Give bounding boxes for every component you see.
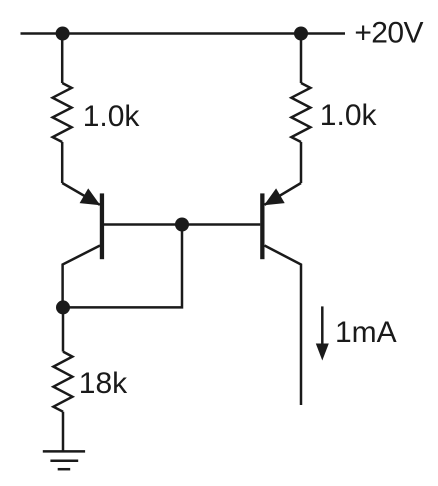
transistor Q2 collector lead	[265, 246, 302, 406]
transistor Q2 emitter lead	[265, 183, 302, 205]
resistor R3 18k	[53, 352, 72, 412]
svg-text:+20V: +20V	[354, 16, 423, 49]
wire R2 to Q2 emitter	[300, 142, 303, 183]
junction node dot above R3	[56, 300, 70, 314]
transistor Q1 collector lead	[63, 246, 100, 308]
wire left branch rail to R1	[61, 34, 64, 84]
wire node to R3	[62, 307, 65, 351]
junction node dot at rail right	[294, 27, 308, 41]
wire base node down	[63, 225, 182, 308]
junction node dot at rail left	[56, 27, 70, 41]
svg-text:1mA: 1mA	[335, 316, 397, 349]
wire R1 to Q1 emitter	[61, 142, 64, 183]
ground symbol	[43, 451, 85, 469]
svg-text:1.0k: 1.0k	[83, 100, 141, 133]
transistor Q1 emitter arrowhead	[80, 188, 101, 205]
resistor R1 1.0k	[53, 83, 72, 142]
wire R3 to ground	[62, 412, 65, 452]
current arrow 1mA head	[316, 344, 329, 361]
transistor Q2 emitter arrowhead	[264, 188, 285, 205]
wire +20V supply rail	[21, 32, 346, 35]
wire base bus Q1 to Q2	[104, 223, 260, 226]
current arrow 1mA shaft	[321, 306, 324, 345]
transistor Q1 base bar	[100, 193, 104, 259]
resistor R2 1.0k	[291, 83, 310, 142]
svg-text:18k: 18k	[79, 367, 128, 400]
transistor Q2 base bar	[260, 193, 264, 259]
svg-text:1.0k: 1.0k	[320, 99, 378, 132]
junction node dot at base bus	[175, 218, 189, 232]
wire right branch rail to R2	[300, 34, 303, 84]
transistor Q1 emitter lead	[62, 183, 100, 205]
